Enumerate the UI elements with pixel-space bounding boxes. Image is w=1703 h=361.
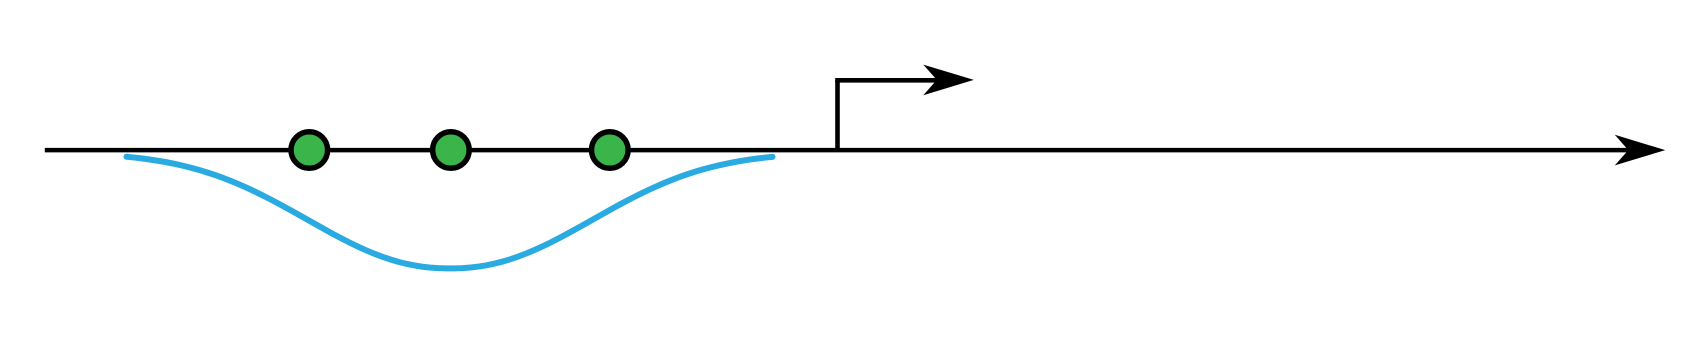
- binding-site circle 1 (green): [291, 132, 328, 169]
- promoter arrow horizontal shaft: [835, 78, 940, 83]
- promoter arrow vertical riser: [835, 80, 840, 152]
- signal dip curve (blue): [127, 157, 773, 269]
- promoter arrowhead: [923, 65, 974, 96]
- DNA axis arrowhead (right end): [1615, 135, 1666, 166]
- DNA axis line: [45, 148, 1630, 153]
- binding-site circle 2 (green): [433, 132, 470, 169]
- binding-site circle 3 (green): [592, 132, 629, 169]
